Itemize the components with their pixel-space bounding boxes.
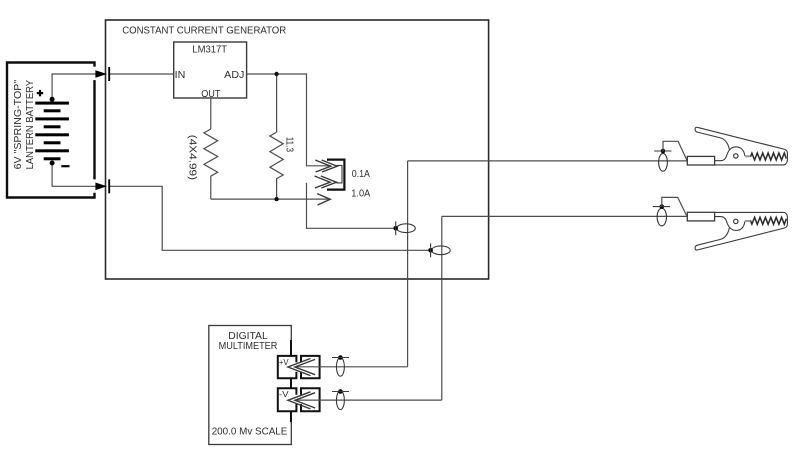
svg-text:200.0 Mv SCALE: 200.0 Mv SCALE — [212, 427, 288, 438]
svg-text:0.1A: 0.1A — [352, 169, 370, 180]
svg-text:1.0A: 1.0A — [351, 189, 370, 200]
svg-text:+V: +V — [279, 357, 289, 367]
svg-text:CONSTANT CURRENT GENERATOR: CONSTANT CURRENT GENERATOR — [122, 25, 286, 36]
svg-text:LANTERN BATTERY: LANTERN BATTERY — [25, 80, 36, 170]
svg-text:IN: IN — [175, 70, 186, 81]
svg-text:6V "SPRING-TOP": 6V "SPRING-TOP" — [13, 80, 24, 170]
svg-text:OUT: OUT — [201, 89, 220, 100]
svg-text:-V: -V — [279, 389, 289, 399]
svg-text:ADJ: ADJ — [224, 70, 244, 81]
svg-text:LM317T: LM317T — [192, 45, 227, 56]
svg-text:(4X4.99): (4X4.99) — [187, 135, 198, 180]
svg-text:11.3: 11.3 — [284, 137, 295, 153]
svg-text:MULTIMETER: MULTIMETER — [219, 341, 278, 352]
